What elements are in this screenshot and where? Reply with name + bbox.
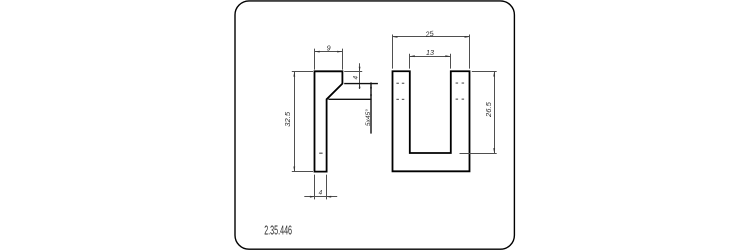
dimension 13: left arrow — [410, 55, 415, 57]
dimension 4 (flange): bottom arrow — [359, 84, 361, 89]
dimension 4 (flange): dimension line — [359, 63, 361, 89]
dimension 4 (bar width): extension line right — [326, 175, 328, 200]
dimension 4 (bar width): left arrow — [310, 196, 315, 198]
chamfer callout: lower extension line — [328, 98, 371, 100]
left wall groove dash row 1b — [402, 83, 405, 84]
dimension 9: extension line right — [342, 49, 344, 70]
dimension 9: extension line left — [314, 49, 316, 70]
dimension 9: dimension line — [315, 51, 343, 53]
dimension 32.5: top arrow — [293, 72, 295, 77]
dimension 4 (flange): extension line top — [344, 71, 362, 73]
dimension 13: extension line left — [409, 54, 411, 69]
svg-text:5x45°: 5x45° — [364, 109, 372, 126]
centre dash inside left profile bar — [319, 153, 322, 154]
dimension 4 (bar width): right arrow — [327, 196, 332, 198]
chamfer callout: dimension line — [370, 82, 372, 133]
dimension 4 (bar width): dimension line — [304, 196, 337, 198]
dimension 25: extension line left — [392, 35, 394, 69]
dimension 25: extension line right — [469, 35, 471, 69]
left angle profile outline — [315, 71, 343, 171]
dimension 26.5: extension line bottom — [460, 153, 497, 155]
U channel profile outline — [393, 71, 470, 171]
svg-text:2.35.446: 2.35.446 — [264, 225, 292, 239]
dimension 9: right arrow — [337, 51, 342, 53]
right wall groove dash row 1b — [462, 83, 465, 84]
svg-text:13: 13 — [426, 48, 434, 57]
dimension 25: left arrow — [393, 36, 398, 38]
drawing card border — [235, 1, 514, 249]
svg-text:9: 9 — [327, 43, 331, 52]
chamfer callout: top arrow — [370, 84, 372, 89]
chamfer callout: bottom arrow — [370, 95, 372, 100]
dimension 4 (bar width): extension line left — [314, 175, 316, 200]
left wall groove dash row 1a — [396, 83, 399, 84]
svg-text:4: 4 — [353, 75, 360, 79]
dimension 32.5: dimension line — [294, 72, 296, 172]
chamfer callout: upper extension line — [344, 83, 378, 85]
svg-text:32.5: 32.5 — [283, 111, 292, 127]
left wall groove dash row 2a — [396, 99, 399, 100]
dimension 25: dimension line — [393, 36, 470, 38]
dimension 9: left arrow — [315, 51, 320, 53]
left wall groove dash row 2b — [402, 99, 405, 100]
dimension 26.5: extension line top — [472, 71, 497, 73]
dimension 4 (flange): top arrow — [359, 67, 361, 72]
dimension 26.5: dimension line — [494, 72, 496, 154]
right wall groove dash row 2b — [462, 99, 465, 100]
svg-text:26.5: 26.5 — [484, 101, 493, 118]
dimension 13: dimension line — [410, 56, 451, 58]
svg-text:4: 4 — [319, 190, 323, 197]
dimension 32.5: extension line top — [292, 71, 313, 73]
dimension 26.5: top arrow — [493, 72, 495, 77]
dimension 13: right arrow — [445, 55, 450, 57]
right wall groove dash row 2a — [456, 99, 459, 100]
dimension 32.5: extension line bottom — [292, 171, 313, 173]
dimension 32.5: bottom arrow — [293, 167, 295, 172]
right wall groove dash row 1a — [456, 83, 459, 84]
dimension 26.5: bottom arrow — [493, 148, 495, 153]
dimension 13: extension line right — [450, 54, 452, 69]
dimension 25: right arrow — [465, 36, 470, 38]
